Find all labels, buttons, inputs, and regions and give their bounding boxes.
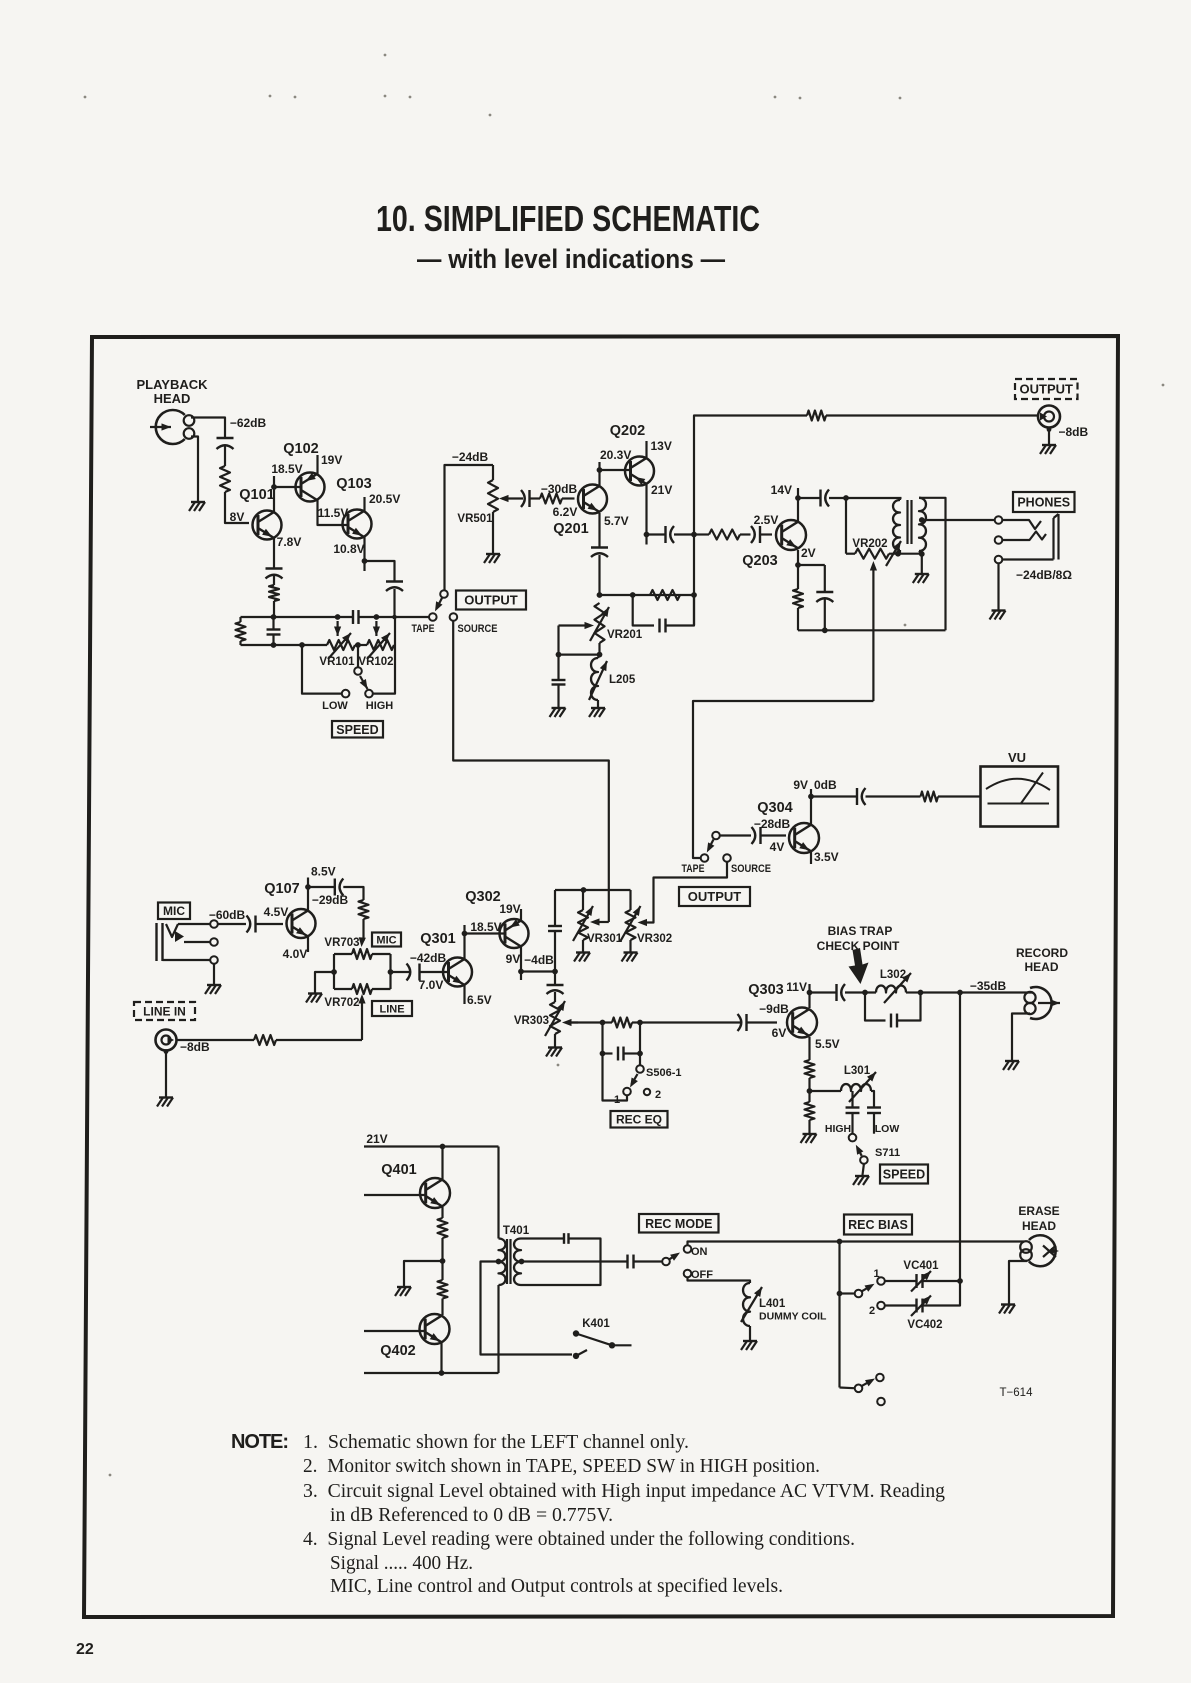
- node: [807, 1088, 813, 1094]
- svg-text:OUTPUT: OUTPUT: [464, 593, 518, 608]
- svg-text:−9dB: −9dB: [759, 1002, 789, 1016]
- wire VR202 wiper: [870, 561, 877, 701]
- wire: [365, 561, 395, 581]
- svg-text:18.5V: 18.5V: [271, 462, 302, 476]
- svg-text:20.3V: 20.3V: [600, 448, 631, 462]
- wire: [404, 1261, 443, 1286]
- variable resistor VR202: [852, 538, 901, 566]
- resistor: [438, 1218, 448, 1238]
- transistor Q202: [610, 423, 654, 486]
- switch contact: [712, 832, 720, 840]
- resistor: [359, 900, 369, 919]
- mic box: [158, 903, 190, 920]
- resistor: [236, 622, 246, 641]
- wire: [997, 564, 999, 610]
- svg-text:1. Schematic shown for the LEF: 1. Schematic shown for the LEFT channel …: [303, 1431, 689, 1453]
- svg-text:Q203: Q203: [742, 553, 777, 569]
- notes text: [231, 1431, 945, 1597]
- wire: [557, 685, 559, 708]
- svg-text:Q101: Q101: [239, 487, 274, 503]
- node: [271, 614, 277, 620]
- label CHECK POINT: [817, 939, 900, 953]
- wire: [256, 923, 283, 925]
- playback head label: [136, 377, 208, 406]
- label Q401: [381, 1162, 416, 1178]
- svg-text:−8dB: −8dB: [180, 1040, 210, 1054]
- node: [691, 592, 697, 598]
- capacitor: [247, 916, 256, 933]
- svg-text:1: 1: [614, 1094, 620, 1106]
- wire: [372, 988, 391, 990]
- variable capacitor VC402: [911, 1296, 931, 1317]
- wire: [308, 886, 335, 888]
- wire: [492, 465, 494, 480]
- label RECORD: [1016, 946, 1068, 960]
- svg-text:K401: K401: [582, 1318, 610, 1330]
- resistor: [805, 1060, 815, 1078]
- wire: [164, 1049, 169, 1096]
- wire: [808, 1037, 810, 1060]
- label 19V: [499, 902, 520, 916]
- wire: [163, 959, 211, 961]
- wire: [899, 498, 901, 500]
- transistor Q203: [742, 520, 806, 569]
- label 21V: [366, 1132, 387, 1146]
- wire: [1009, 1261, 1027, 1304]
- wire: [315, 972, 334, 993]
- resistor: [921, 792, 939, 802]
- svg-text:−28dB: −28dB: [754, 817, 791, 831]
- output box lower: [679, 887, 750, 906]
- svg-text:19V: 19V: [321, 453, 342, 467]
- wire: [530, 497, 540, 499]
- svg-text:−4dB: −4dB: [524, 953, 554, 967]
- label 11.5V: [318, 506, 349, 520]
- inductor L401: [741, 1283, 762, 1326]
- node: [837, 1291, 843, 1297]
- label 6V: [772, 1026, 787, 1040]
- speed box: [332, 721, 383, 738]
- node: [644, 532, 650, 538]
- svg-text:8.5V: 8.5V: [311, 865, 336, 879]
- wire: [810, 789, 812, 824]
- svg-text:L401: L401: [759, 1298, 786, 1310]
- svg-text:21V: 21V: [366, 1132, 387, 1146]
- svg-text:PHONES: PHONES: [1017, 496, 1070, 510]
- wire: [598, 462, 600, 470]
- node: [600, 1051, 606, 1057]
- variable resistor VR102: [358, 621, 394, 668]
- wire: [333, 954, 335, 989]
- transistor Q402: [420, 1314, 450, 1344]
- switch speed low-high: [342, 667, 373, 697]
- variable resistor VR302: [621, 906, 673, 945]
- wire: [307, 936, 309, 952]
- svg-text:SPEED: SPEED: [336, 723, 378, 737]
- ground: [157, 1098, 173, 1107]
- ground: [990, 611, 1006, 620]
- wire: [307, 878, 309, 912]
- wire: [846, 553, 855, 555]
- svg-text:Q107: Q107: [264, 881, 299, 897]
- capacitor: [821, 490, 830, 507]
- wire: [554, 972, 556, 986]
- wire: [797, 488, 799, 498]
- svg-text:DUMMY COIL: DUMMY COIL: [759, 1311, 827, 1323]
- wire: [808, 1078, 810, 1102]
- node: [691, 532, 697, 538]
- wire record bias line: [959, 993, 961, 1282]
- ground: [913, 574, 929, 583]
- node: [957, 990, 963, 996]
- transistor Q103: [336, 476, 371, 539]
- wire: [521, 970, 555, 972]
- wire: [357, 645, 359, 667]
- label BIAS TRAP: [828, 924, 893, 938]
- label HEAD: [1022, 1219, 1056, 1233]
- svg-text:14V: 14V: [771, 483, 792, 497]
- schematic border frame: [84, 336, 1118, 1617]
- resistor: [805, 1102, 815, 1120]
- svg-text:OUTPUT: OUTPUT: [1020, 382, 1074, 397]
- wire: [871, 1090, 873, 1092]
- ground: [306, 994, 322, 1003]
- node: [895, 551, 901, 557]
- label 5.7V: [604, 514, 629, 528]
- svg-text:−8dB: −8dB: [1059, 425, 1089, 439]
- wire: [522, 1260, 628, 1262]
- wire: [273, 476, 275, 487]
- wire: [559, 653, 600, 655]
- line in box: [134, 1002, 195, 1020]
- node: [919, 551, 925, 557]
- svg-text:2. Monitor switch shown in TAP: 2. Monitor switch shown in TAPE, SPEED S…: [303, 1455, 820, 1477]
- wire: [276, 1039, 362, 1041]
- label -8dB: [1059, 425, 1089, 439]
- wire: [395, 616, 430, 618]
- svg-text:2V: 2V: [801, 546, 816, 560]
- label 3.5V: [814, 850, 839, 864]
- label 2.5V: [754, 513, 779, 527]
- svg-text:REC BIAS: REC BIAS: [848, 1218, 908, 1232]
- wire: [1003, 558, 1054, 560]
- wire: [441, 1299, 443, 1316]
- label 0dB: [814, 778, 837, 792]
- capacitor: [628, 1255, 634, 1269]
- svg-text:6.2V: 6.2V: [553, 505, 578, 519]
- wire: [624, 1052, 640, 1054]
- svg-text:TAPE: TAPE: [682, 863, 705, 875]
- label 19V: [321, 453, 342, 467]
- wire: [497, 1285, 499, 1373]
- node: [305, 884, 311, 890]
- svg-text:LOW: LOW: [322, 700, 348, 712]
- label 18.5V: [271, 462, 302, 476]
- jack contact: [995, 536, 1003, 544]
- svg-text:Q302: Q302: [465, 889, 500, 905]
- wire: [302, 645, 342, 694]
- transformer core: [507, 1239, 511, 1284]
- capacitor: [547, 985, 564, 994]
- transistor Q101: [239, 487, 281, 540]
- svg-text:OUTPUT: OUTPUT: [688, 889, 742, 904]
- wire: [463, 985, 465, 1004]
- wire: [273, 601, 275, 617]
- node: [918, 990, 924, 996]
- label -30dB: [541, 482, 578, 496]
- wire: [840, 1386, 855, 1389]
- wire: [898, 993, 921, 1021]
- wire: [808, 984, 810, 1008]
- variable resistor VR303: [514, 1001, 578, 1036]
- wire: [557, 626, 559, 655]
- label -29dB: [312, 893, 349, 907]
- svg-text:10. SIMPLIFIED SCHEMATIC: 10. SIMPLIFIED SCHEMATIC: [376, 198, 760, 239]
- svg-text:Q401: Q401: [381, 1162, 416, 1178]
- wire: [603, 1052, 613, 1054]
- ground: [574, 953, 590, 962]
- label 11V: [786, 980, 807, 994]
- label 20.5V: [369, 492, 400, 506]
- wire: [445, 465, 494, 590]
- label -60dB: [209, 908, 246, 922]
- wire: [865, 993, 886, 1021]
- wire: [554, 1034, 556, 1047]
- wire: [603, 1021, 613, 1023]
- node: [919, 517, 925, 523]
- capacitor: [751, 526, 760, 543]
- transformer primary: [893, 500, 900, 550]
- wire: [749, 1326, 751, 1340]
- switch contact: [440, 590, 448, 598]
- jack contact: [210, 920, 218, 928]
- erase head EH: [1020, 1235, 1059, 1266]
- wire: [463, 934, 465, 960]
- wire: [838, 1242, 840, 1388]
- phones jack sleeve: [1054, 514, 1059, 560]
- label 6.2V: [553, 505, 578, 519]
- label -24dB: [452, 450, 489, 464]
- wire: [797, 498, 799, 521]
- wire: [693, 701, 873, 858]
- wire: [372, 953, 391, 955]
- node: [957, 1278, 963, 1284]
- wire: [642, 862, 728, 923]
- wire: [184, 941, 210, 943]
- svg-text:MIC: MIC: [163, 904, 185, 918]
- wire: [863, 1164, 864, 1175]
- ground: [741, 1341, 757, 1350]
- wire: [218, 923, 246, 925]
- wire: [1047, 427, 1052, 444]
- variable resistor VR101: [319, 621, 355, 668]
- wire: [873, 1091, 875, 1108]
- node: [597, 652, 603, 658]
- wire: [810, 1090, 842, 1092]
- wire: [562, 497, 575, 499]
- node: [331, 969, 337, 975]
- wire: [213, 964, 215, 984]
- wire: [343, 887, 363, 900]
- transformer T401 secondary: [514, 1239, 521, 1286]
- node: [496, 1259, 502, 1265]
- label VC402: [907, 1319, 942, 1331]
- wire: [598, 555, 600, 595]
- wire: [273, 487, 275, 512]
- wire: [921, 991, 1034, 993]
- svg-text:11V: 11V: [786, 980, 807, 994]
- svg-text:SOURCE: SOURCE: [731, 863, 771, 875]
- svg-text:−29dB: −29dB: [312, 893, 349, 907]
- output box: [456, 591, 526, 610]
- svg-text:VU: VU: [1008, 750, 1026, 765]
- capacitor: [591, 548, 608, 558]
- svg-text:VR101: VR101: [319, 656, 355, 668]
- wire: [177, 1039, 255, 1041]
- svg-text:−35dB: −35dB: [970, 979, 1007, 993]
- wire: [889, 553, 922, 555]
- svg-text:21V: 21V: [651, 483, 672, 497]
- wire: [645, 484, 647, 545]
- label 9V: [793, 778, 808, 792]
- switch arm: [670, 1253, 681, 1261]
- svg-text:ON: ON: [691, 1246, 708, 1258]
- wire: [465, 932, 506, 934]
- ground: [546, 1048, 562, 1057]
- label Q402: [380, 1343, 415, 1359]
- wire: [274, 486, 301, 488]
- node: [362, 558, 368, 564]
- wire: [178, 923, 210, 925]
- svg-text:VR102: VR102: [358, 656, 393, 668]
- wire: [318, 500, 349, 525]
- capacitor: [816, 592, 833, 602]
- phones jack ring: [1003, 532, 1047, 541]
- jack contact: [995, 516, 1003, 524]
- capacitor: [548, 926, 562, 931]
- wire: [747, 1021, 777, 1023]
- wire: [364, 1330, 426, 1332]
- transistor Q304: [789, 823, 819, 853]
- switch contact ON: [684, 1245, 692, 1253]
- capacitor: [407, 964, 420, 981]
- svg-text:18.5V: 18.5V: [470, 920, 501, 934]
- label 9V: [506, 952, 521, 966]
- svg-text:VC401: VC401: [903, 1260, 939, 1272]
- label -9dB: [759, 1002, 789, 1016]
- wire: [453, 621, 609, 922]
- resistor: [807, 411, 826, 421]
- svg-text:Signal ..... 400 Hz.: Signal ..... 400 Hz.: [330, 1552, 473, 1574]
- ground: [1040, 445, 1056, 454]
- capacitor: [353, 610, 359, 624]
- ground: [1003, 1061, 1019, 1070]
- capacitor: [618, 1047, 624, 1061]
- jack contact: [995, 556, 1003, 564]
- wire: [645, 441, 647, 458]
- node: [795, 562, 801, 568]
- wire: [798, 497, 821, 499]
- wire: [797, 608, 799, 630]
- label -42dB: [410, 951, 447, 965]
- svg-text:7.8V: 7.8V: [277, 535, 302, 549]
- wire: [272, 617, 274, 630]
- svg-text:Q303: Q303: [748, 982, 783, 998]
- wire: [521, 1237, 564, 1239]
- wire: [632, 1021, 640, 1023]
- transistor Q201: [553, 485, 607, 538]
- switch contact SOURCE: [450, 613, 458, 621]
- wire: [885, 1304, 917, 1306]
- node: [597, 592, 603, 598]
- wire: [359, 919, 366, 947]
- switch S506-1: [623, 1065, 644, 1095]
- wire: [441, 1207, 443, 1218]
- switch contact 2: [644, 1089, 661, 1101]
- svg-text:T401: T401: [503, 1225, 530, 1237]
- line box: [372, 1001, 412, 1016]
- svg-text:VR703: VR703: [324, 937, 359, 949]
- label K401: [582, 1318, 610, 1330]
- svg-text:REC MODE: REC MODE: [645, 1217, 712, 1231]
- label 18.5V: [470, 920, 501, 934]
- wire: [694, 533, 709, 535]
- wire: [393, 589, 395, 617]
- svg-text:L205: L205: [609, 674, 636, 686]
- switch 1-2: [855, 1277, 885, 1309]
- switch contact TAPE: [701, 854, 709, 862]
- label -4dB: [524, 953, 554, 967]
- wire: [225, 492, 249, 523]
- resistor: [540, 494, 562, 504]
- resistor: [650, 590, 680, 600]
- wire: [191, 437, 198, 502]
- switch contact: [662, 1258, 670, 1266]
- wire: [666, 595, 695, 626]
- line in jack: [156, 1030, 177, 1051]
- svg-text:HEAD: HEAD: [154, 391, 191, 406]
- wire: [241, 616, 274, 618]
- node: [843, 495, 849, 501]
- output jack box: [1015, 379, 1078, 399]
- output jack J: [1038, 406, 1060, 428]
- wire: [557, 655, 559, 680]
- label 4V: [770, 840, 785, 854]
- wire: [239, 641, 241, 645]
- wire: [629, 940, 631, 952]
- wire: [274, 616, 353, 618]
- wire: [364, 1194, 426, 1196]
- svg-text:−62dB: −62dB: [230, 416, 267, 430]
- svg-text:SPEED: SPEED: [883, 1168, 925, 1182]
- wire: [633, 595, 654, 626]
- capacitor: [846, 1108, 860, 1114]
- wire: [840, 1292, 855, 1294]
- wire: [1012, 1014, 1030, 1061]
- wire: [492, 512, 494, 553]
- svg-text:9V: 9V: [793, 778, 808, 792]
- mic box 2: [372, 933, 401, 947]
- switch S711: [849, 1134, 900, 1164]
- label TAPE: [682, 863, 705, 875]
- node: [355, 642, 361, 648]
- wire: [600, 594, 695, 596]
- svg-text:Q304: Q304: [757, 800, 792, 816]
- capacitor: [386, 582, 403, 592]
- label 6.5V: [467, 993, 492, 1007]
- svg-text:2: 2: [655, 1089, 661, 1101]
- svg-text:6.5V: 6.5V: [467, 993, 492, 1007]
